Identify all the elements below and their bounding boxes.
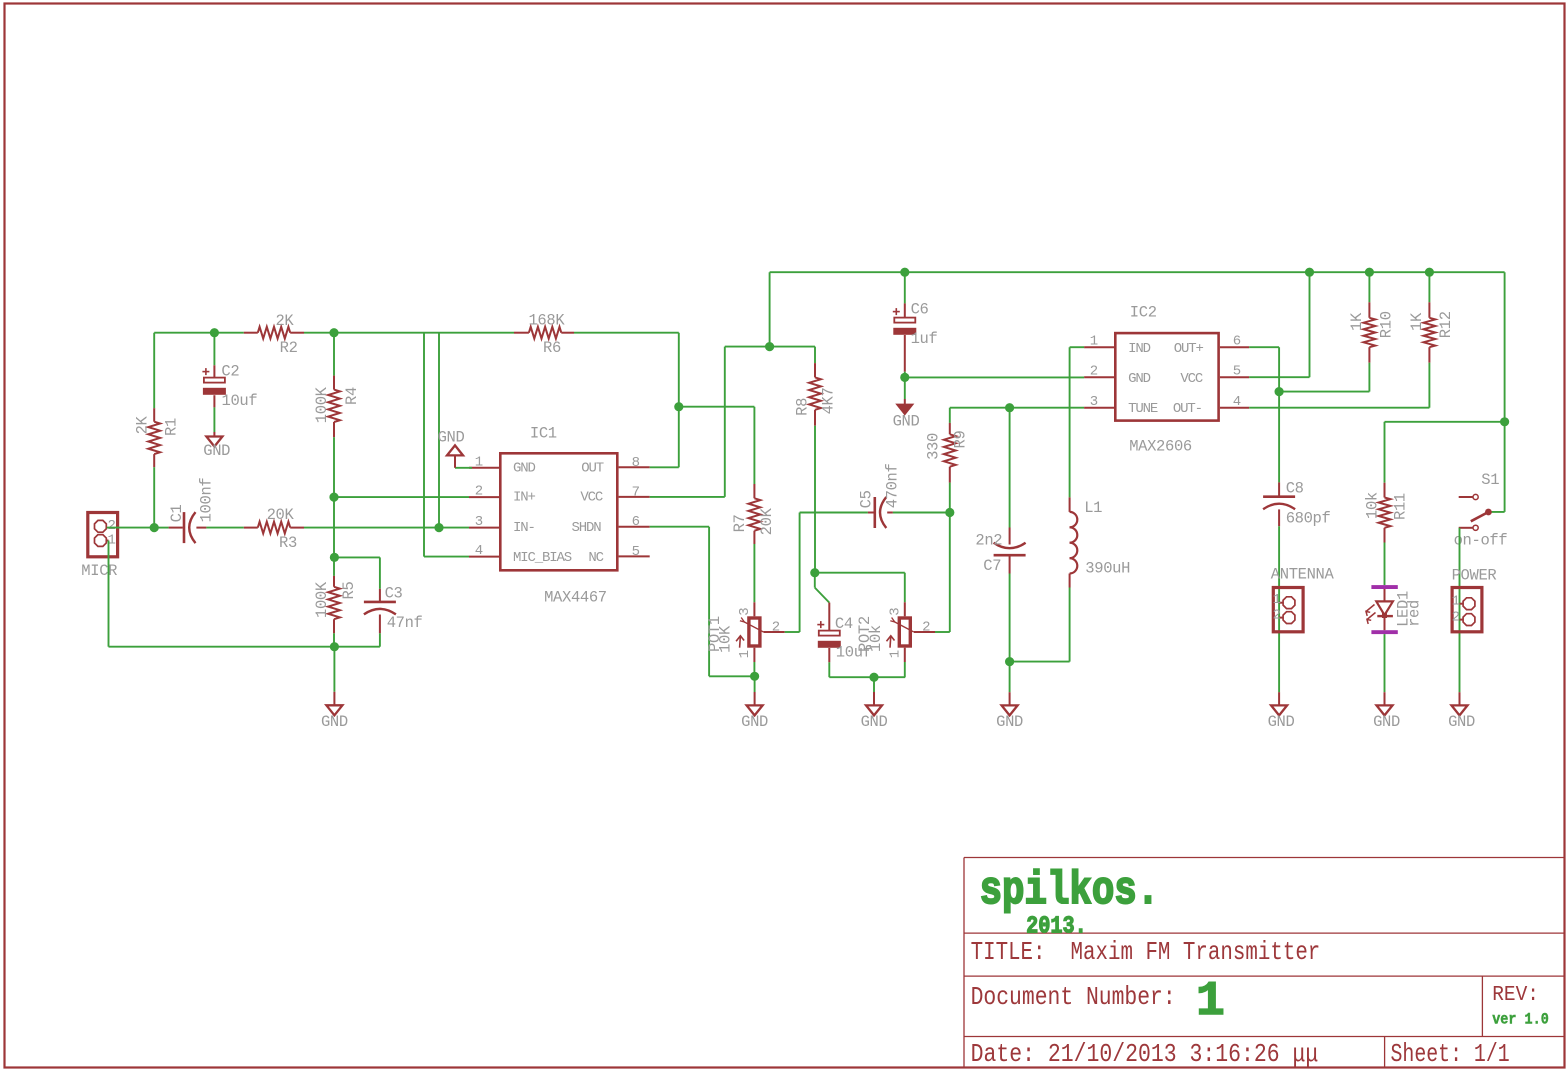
svg-text:100nf: 100nf — [197, 478, 215, 523]
svg-text:GND: GND — [1268, 713, 1295, 731]
svg-text:TUNE: TUNE — [1128, 401, 1158, 417]
svg-text:10K: 10K — [717, 625, 735, 653]
svg-text:2: 2 — [1273, 608, 1281, 624]
svg-text:6: 6 — [1233, 334, 1241, 350]
svg-text:R2: R2 — [280, 339, 298, 357]
svg-text:330: 330 — [925, 433, 943, 460]
svg-text:TITLE: Maxim FM Transmitter: TITLE: Maxim FM Transmitter — [971, 937, 1321, 967]
svg-text:C8: C8 — [1286, 480, 1304, 498]
svg-text:1: 1 — [737, 650, 753, 658]
svg-text:GND: GND — [996, 713, 1023, 731]
svg-text:20K: 20K — [758, 507, 776, 535]
svg-text:GND: GND — [203, 442, 230, 460]
svg-text:680pf: 680pf — [1286, 510, 1331, 528]
svg-text:MIC_BIAS: MIC_BIAS — [513, 550, 572, 566]
svg-text:2: 2 — [1090, 364, 1098, 380]
svg-text:spilkos.: spilkos. — [980, 865, 1160, 917]
svg-text:R5: R5 — [340, 582, 358, 600]
svg-text:C1: C1 — [168, 504, 186, 522]
svg-text:L1: L1 — [1084, 499, 1102, 517]
svg-text:Sheet: 1/1: Sheet: 1/1 — [1391, 1039, 1510, 1069]
svg-text:3: 3 — [888, 607, 904, 615]
svg-text:1: 1 — [1196, 975, 1225, 1029]
svg-text:R11: R11 — [1392, 493, 1410, 520]
svg-text:1: 1 — [888, 650, 904, 658]
svg-text:R9: R9 — [952, 431, 970, 449]
svg-text:5: 5 — [632, 544, 640, 560]
svg-text:red: red — [1405, 600, 1423, 627]
svg-text:R3: R3 — [279, 534, 297, 552]
svg-text:5: 5 — [1233, 364, 1241, 380]
svg-text:IC2: IC2 — [1130, 304, 1157, 322]
svg-text:GND: GND — [1448, 713, 1475, 731]
svg-text:SHDN: SHDN — [572, 520, 602, 536]
svg-text:GND: GND — [893, 413, 920, 431]
svg-text:3: 3 — [475, 514, 483, 530]
svg-text:OUT: OUT — [581, 460, 604, 476]
svg-text:Date: 21/10/2013 3:16:26 μμ: Date: 21/10/2013 3:16:26 μμ — [971, 1039, 1319, 1069]
svg-text:VCC: VCC — [1180, 371, 1203, 387]
svg-text:2: 2 — [922, 620, 930, 636]
svg-text:1: 1 — [1452, 593, 1460, 609]
svg-text:168K: 168K — [528, 312, 565, 330]
svg-text:MAX4467: MAX4467 — [544, 589, 607, 607]
svg-text:6: 6 — [632, 514, 640, 530]
svg-text:390uH: 390uH — [1085, 560, 1130, 578]
svg-text:2: 2 — [1452, 610, 1460, 626]
svg-text:R6: R6 — [543, 339, 561, 357]
svg-text:3: 3 — [1090, 394, 1098, 410]
svg-text:R12: R12 — [1437, 311, 1455, 338]
svg-text:8: 8 — [632, 455, 640, 471]
svg-text:NC: NC — [588, 550, 603, 566]
svg-text:IC1: IC1 — [530, 425, 557, 443]
svg-text:C2: C2 — [221, 363, 239, 381]
svg-text:3: 3 — [737, 607, 753, 615]
svg-text:7: 7 — [632, 484, 640, 500]
svg-text:GND: GND — [321, 713, 348, 731]
svg-text:OUT-: OUT- — [1173, 401, 1202, 417]
svg-text:GND: GND — [513, 460, 536, 476]
svg-text:R10: R10 — [1378, 311, 1396, 338]
svg-text:GND: GND — [861, 713, 888, 731]
svg-text:20K: 20K — [267, 506, 295, 524]
svg-text:10uf: 10uf — [222, 392, 258, 410]
svg-text:REV:: REV: — [1492, 983, 1539, 1007]
svg-text:GND: GND — [438, 429, 465, 447]
svg-text:2K: 2K — [275, 312, 294, 330]
svg-text:100K: 100K — [313, 581, 331, 618]
svg-text:1: 1 — [475, 454, 483, 470]
svg-text:MAX2606: MAX2606 — [1129, 438, 1192, 456]
svg-text:1: 1 — [1273, 592, 1281, 608]
svg-text:MICR: MICR — [81, 562, 117, 580]
svg-text:470nf: 470nf — [883, 463, 901, 508]
svg-text:2: 2 — [475, 484, 483, 500]
svg-text:1K: 1K — [1408, 312, 1426, 331]
svg-text:4: 4 — [475, 543, 483, 559]
svg-text:4K7: 4K7 — [819, 387, 837, 414]
svg-text:OUT+: OUT+ — [1174, 341, 1204, 357]
svg-text:GND: GND — [1373, 713, 1400, 731]
svg-text:R1: R1 — [163, 418, 181, 436]
svg-text:S1: S1 — [1481, 471, 1499, 489]
svg-text:4: 4 — [1233, 394, 1241, 410]
svg-text:2: 2 — [772, 620, 780, 636]
svg-text:2n2: 2n2 — [975, 532, 1002, 550]
svg-text:100K: 100K — [313, 386, 331, 423]
svg-text:R4: R4 — [343, 387, 361, 405]
svg-text:R7: R7 — [731, 514, 749, 532]
svg-text:Document Number:: Document Number: — [971, 982, 1176, 1012]
svg-text:C5: C5 — [858, 490, 876, 508]
svg-text:10k: 10k — [1363, 492, 1381, 519]
svg-text:IN+: IN+ — [513, 490, 536, 506]
svg-text:C7: C7 — [983, 557, 1001, 575]
svg-text:GND: GND — [741, 713, 768, 731]
svg-text:2K: 2K — [134, 415, 152, 434]
svg-text:IN-: IN- — [513, 520, 535, 536]
svg-text:IND: IND — [1128, 341, 1151, 357]
svg-text:GND: GND — [1128, 371, 1151, 387]
svg-text:on-off: on-off — [1454, 532, 1508, 550]
svg-text:ver 1.0: ver 1.0 — [1492, 1011, 1549, 1029]
svg-text:VCC: VCC — [580, 490, 603, 506]
svg-text:47nf: 47nf — [387, 614, 423, 632]
svg-text:1uf: 1uf — [911, 330, 938, 348]
svg-text:POWER: POWER — [1452, 567, 1497, 585]
svg-text:C6: C6 — [911, 300, 929, 318]
svg-text:1K: 1K — [1348, 312, 1366, 331]
svg-text:C3: C3 — [385, 584, 403, 602]
svg-text:1: 1 — [1090, 334, 1098, 350]
svg-text:10k: 10k — [867, 625, 885, 652]
svg-text:ANTENNA: ANTENNA — [1271, 566, 1335, 584]
svg-text:C4: C4 — [835, 615, 853, 633]
svg-text:R8: R8 — [794, 398, 812, 416]
